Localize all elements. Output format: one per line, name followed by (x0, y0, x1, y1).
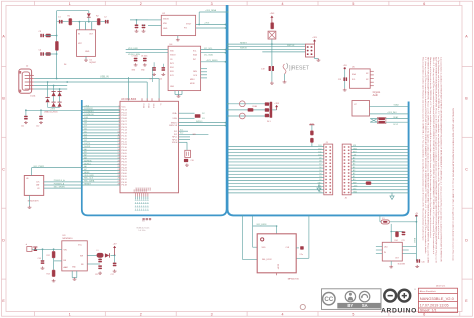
svg-text:A4/SDA: A4/SDA (84, 159, 92, 162)
connector SWD J4 (306, 44, 315, 57)
svg-text:7: 7 (118, 123, 119, 125)
svg-text:+3V3: +3V3 (343, 65, 347, 67)
svg-text:U6: U6 (26, 178, 28, 180)
svg-text:1: 1 (69, 2, 71, 6)
svg-text:P1.14: P1.14 (122, 130, 128, 132)
module right pin D- (179, 117, 195, 119)
svg-text:1: 1 (69, 313, 71, 317)
svg-text:F1: F1 (382, 218, 384, 220)
svg-text:12: 12 (118, 137, 120, 139)
svg-text:1uF 100n: 1uF 100n (138, 230, 145, 232)
svg-text:16: 16 (118, 149, 120, 151)
svg-text:D13: D13 (353, 188, 356, 190)
svg-text:17: 17 (118, 152, 120, 154)
wires U2 right to bus (196, 24, 226, 26)
svg-text:P1.13: P1.13 (122, 133, 128, 135)
svg-text:P1.12: P1.12 (122, 138, 128, 140)
svg-text:C14: C14 (38, 258, 41, 260)
svg-text:D10: D10 (318, 154, 321, 156)
svg-text:C20: C20 (422, 262, 425, 264)
svg-text:D0/RX: D0/RX (84, 146, 91, 148)
diode D4 (87, 13, 91, 17)
U10 right stubs (402, 245, 416, 247)
svg-text:P1.10: P1.10 (122, 147, 128, 149)
svg-text:P1.03: P1.03 (122, 144, 128, 146)
svg-text:D4: D4 (319, 173, 321, 175)
svg-text:VDD: VDD (262, 247, 267, 249)
wires U4 right short (201, 68, 207, 70)
svg-text:A6: A6 (353, 160, 355, 163)
svg-text:2: 2 (118, 108, 119, 110)
svg-text:U3 NINA-B306: U3 NINA-B306 (121, 98, 137, 101)
svg-text:D11: D11 (318, 151, 321, 153)
svg-text:A0: A0 (353, 178, 355, 181)
svg-text:10: 10 (118, 131, 120, 133)
svg-text:DOUT: DOUT (277, 264, 279, 270)
svg-text:SCL2: SCL2 (393, 124, 398, 126)
svg-text:PDMCLK_A: PDMCLK_A (54, 179, 65, 182)
left column caps/res row1 (40, 34, 44, 38)
capacitor C20 (416, 259, 420, 263)
ground U9 (73, 278, 77, 281)
ground C20 (415, 265, 419, 268)
svg-text:+3V3_SENS: +3V3_SENS (206, 60, 218, 62)
svg-text:P0.30: P0.30 (122, 156, 128, 158)
wire cap rail (26, 109, 120, 111)
svg-text:VDDIO: VDDIO (163, 19, 170, 21)
module U3 NINA-B306 box (120, 101, 179, 193)
svg-text:MIC_DATA: MIC_DATA (84, 180, 95, 183)
svg-text:PDMDIN_A: PDMDIN_A (54, 182, 65, 185)
wire cap riser (151, 67, 153, 82)
svg-text:RESET: RESET (240, 42, 248, 44)
svg-text:ND FITNESS FOR A PARTICULAR PU: ND FITNESS FOR A PARTICULAR PURPOSE. Ple… (427, 57, 430, 263)
resistor R4 (271, 23, 274, 30)
svg-text:P1.08: P1.08 (122, 118, 128, 120)
svg-text:D: D (465, 239, 468, 243)
svg-text:+3V3_IMU: +3V3_IMU (387, 112, 397, 114)
junction cap rail 2 (40, 109, 42, 111)
wire module pin row (82, 120, 120, 122)
svg-text:C12: C12 (36, 126, 39, 128)
svg-text:21: 21 (118, 163, 120, 165)
ground C6 (142, 30, 146, 33)
Arduino infinity logo (384, 290, 396, 302)
svg-text:P0.03: P0.03 (122, 170, 128, 172)
wire SW out (87, 254, 96, 256)
svg-text:D2: D2 (319, 179, 321, 181)
svg-text:15: 15 (118, 146, 120, 148)
module right SWDIO to bus (179, 122, 226, 124)
wire module pin row (82, 123, 120, 125)
svg-text:MIC_PWR2: MIC_PWR2 (34, 166, 45, 168)
svg-text:VDD_ENV: VDD_ENV (128, 48, 138, 50)
svg-text:XL1: XL1 (180, 129, 183, 131)
svg-text:D5: D5 (319, 170, 321, 172)
svg-text:SA: SA (362, 303, 368, 308)
wire module pin row (82, 184, 120, 186)
svg-text:D11/MOSI: D11/MOSI (84, 114, 94, 116)
svg-text:P0.05: P0.05 (122, 153, 128, 155)
ground J1 (318, 184, 320, 188)
svg-text:+5V: +5V (113, 243, 117, 245)
svg-text:D7: D7 (319, 164, 321, 166)
wire +3V3_NINA top (199, 11, 228, 13)
wire D+ (34, 81, 147, 83)
capacitor C2 (105, 20, 109, 24)
svg-text:D12/MISO: D12/MISO (84, 111, 94, 113)
svg-text:SWDIO: SWDIO (171, 122, 178, 124)
svg-text:SWDIO: SWDIO (240, 48, 247, 50)
svg-text:C18: C18 (338, 79, 341, 81)
svg-text:D13/SCK: D13/SCK (84, 108, 93, 110)
svg-text:1: 1 (118, 105, 119, 107)
svg-text:+3V3: +3V3 (84, 105, 90, 107)
resistor R3 vertical mid (55, 41, 58, 50)
svg-text:P0.09: P0.09 (147, 104, 149, 108)
wire module pin row (82, 181, 120, 183)
wire module pin row (82, 132, 120, 134)
svg-text:BY: BY (347, 303, 353, 308)
IC U10 load switch (382, 242, 402, 261)
ground spring (284, 74, 286, 80)
svg-text:VDD_ENV: VDD_ENV (84, 175, 94, 177)
svg-text:A3: A3 (353, 169, 355, 172)
svg-text:6: 6 (118, 120, 119, 122)
svg-text:SDO: SDO (170, 67, 174, 69)
wire header row L (228, 186, 324, 188)
wire FB (87, 263, 100, 265)
BY person circle (345, 291, 355, 301)
ground header right (391, 192, 393, 196)
frame row ticks left/right (2, 65, 7, 67)
connector J5 (342, 144, 351, 195)
wire to +5V (111, 254, 115, 256)
wire to ESD (53, 86, 55, 103)
svg-text:2: 2 (140, 2, 142, 6)
svg-text:26: 26 (118, 178, 120, 180)
svg-text:ARDUINO: ARDUINO (381, 307, 417, 314)
capacitor C11 (24, 116, 28, 120)
wire module pin row (82, 114, 120, 116)
wires U4 right to bus (201, 49, 226, 51)
svg-text:D3: D3 (319, 176, 321, 178)
svg-text:SWCLK: SWCLK (287, 45, 295, 47)
svg-text:GND: GND (318, 182, 323, 184)
wire module pin row (82, 112, 120, 114)
svg-text:XL2: XL2 (180, 133, 183, 135)
svg-text:Hardware and is licensed under: Hardware and is licensed under the CERN … (429, 57, 432, 238)
wire to ESD 3 (47, 82, 49, 98)
svg-text:4: 4 (282, 313, 284, 317)
svg-text:Sheet: 1/1: Sheet: 1/1 (420, 309, 437, 313)
svg-text:+3V3: +3V3 (312, 37, 316, 39)
crypto legs (370, 70, 374, 72)
wire VUSB down (415, 222, 417, 261)
bus bracket left (NINA module group) (82, 5, 227, 215)
svg-text:D6: D6 (319, 167, 321, 169)
svg-text:C8 100n: C8 100n (141, 56, 147, 58)
resistor R13 (52, 270, 55, 277)
wire button to cap (271, 44, 273, 66)
svg-text:L1: L1 (97, 250, 99, 252)
wires U2 left (148, 19, 161, 21)
resistor R12 (53, 249, 55, 251)
svg-text:C15: C15 (95, 274, 98, 276)
input connector VIN (27, 247, 32, 252)
svg-text:MP34DT05: MP34DT05 (288, 279, 300, 281)
svg-text:INT1: INT1 (170, 63, 174, 65)
svg-text:D12: D12 (318, 148, 321, 150)
svg-text:3: 3 (118, 111, 119, 113)
svg-text:+3V3_NINA: +3V3_NINA (205, 9, 217, 12)
module right pin D+ with ferrite (179, 112, 195, 114)
wire module pin row (82, 143, 120, 145)
wire EN (53, 258, 55, 261)
module right xtal rows (179, 130, 189, 132)
svg-text:5: 5 (118, 117, 119, 119)
connector J2 USB (19, 69, 32, 93)
svg-text:U10: U10 (384, 247, 387, 249)
wire VUSB riser (56, 11, 58, 79)
wire module pin row (82, 178, 120, 180)
wire D- drop to module (158, 79, 160, 101)
svg-text:AAM: AAM (64, 266, 69, 269)
svg-text:P0.18: P0.18 (122, 185, 128, 187)
svg-text:P0.27: P0.27 (122, 121, 128, 123)
svg-text:USB_IN: USB_IN (100, 76, 109, 79)
wire VUSB chain (57, 21, 108, 23)
wire module pin row (82, 117, 120, 119)
svg-text:+3V3: +3V3 (204, 23, 210, 25)
IC U4 sensor box (168, 46, 201, 90)
power arrow SWD (313, 39, 316, 44)
svg-text:I2C_SDA: I2C_SDA (204, 54, 213, 57)
wire header row R (351, 164, 409, 166)
solder jumper pads SJ1 (142, 218, 144, 220)
svg-text:SEL_LRCK: SEL_LRCK (262, 259, 272, 261)
pullup resistors R5 R6 (370, 118, 408, 120)
ground R13 (52, 279, 56, 282)
svg-text:AREF: AREF (84, 171, 90, 174)
wire header row L (228, 158, 324, 160)
svg-text:GND: GND (353, 148, 358, 150)
svg-text:27: 27 (118, 181, 120, 183)
svg-text:SLG59M: SLG59M (398, 263, 406, 265)
ground C19 (271, 71, 273, 82)
SWD wires (228, 43, 306, 45)
svg-text:Auth: Auth (373, 93, 379, 97)
wire VIN (32, 248, 62, 250)
svg-text:MISO: MISO (190, 79, 195, 81)
svg-text:1.2. (ohwr.org cernohl) This d: 1.2. (ohwr.org cernohl) This documentati… (424, 57, 427, 253)
mic wires right (44, 181, 82, 183)
resistor R7 (248, 108, 254, 111)
wire GND usb (34, 88, 67, 90)
svg-text:D8: D8 (319, 161, 321, 163)
svg-text:C10: C10 (159, 79, 162, 81)
capacitor C5 (135, 25, 139, 29)
branch below fuse (390, 224, 392, 242)
power arrow +5V (113, 246, 116, 256)
svg-text:9: 9 (118, 129, 119, 131)
svg-text:2: 2 (140, 313, 142, 317)
svg-text:A1: A1 (353, 175, 355, 178)
wire header row L (228, 192, 324, 194)
svg-text:NFC1: NFC1 (172, 137, 177, 139)
svg-text:MPM3610: MPM3610 (63, 238, 74, 240)
crystal Y1 (185, 150, 191, 157)
pushbutton PB1 (268, 31, 276, 39)
svg-text:C21: C21 (402, 240, 405, 242)
svg-text:VOUT: VOUT (186, 24, 192, 26)
wire header row L (228, 161, 324, 163)
svg-text:C10: C10 (191, 160, 194, 162)
ESD diode array D5 USBLC6 (52, 92, 56, 96)
power flag VUSB (415, 215, 417, 217)
wire D- (34, 85, 67, 87)
svg-text:XL1: XL1 (174, 131, 177, 133)
svg-text:]|RESET: ]|RESET (289, 65, 310, 71)
wire header row L (228, 149, 324, 151)
ground C12 (39, 121, 43, 124)
wire module pin row (82, 152, 120, 154)
fiducial circle (300, 304, 305, 309)
LED symbol 2 (239, 113, 245, 119)
svg-text:C11: C11 (21, 126, 24, 128)
resistor R9 (310, 138, 313, 143)
resistor R1 (69, 18, 72, 25)
svg-text:23: 23 (118, 169, 120, 171)
IC U5 crypto box (350, 69, 371, 88)
svg-text:D4: D4 (64, 64, 66, 66)
svg-text:C17: C17 (111, 274, 114, 276)
mic U6 box (24, 176, 43, 196)
wire module pin row (82, 172, 120, 174)
svg-text:GND: GND (85, 51, 90, 53)
svg-text:VDDIO: VDDIO (170, 55, 176, 57)
svg-text:2.2u: 2.2u (300, 254, 304, 256)
IC U2 LDO box (161, 15, 195, 35)
power dot crypto (344, 67, 346, 69)
svg-text:NANO33BLE_V2.0: NANO33BLE_V2.0 (420, 296, 455, 301)
capacitor C1 (59, 20, 63, 24)
USB pins (25, 74, 34, 76)
mic U8 big box (257, 234, 296, 273)
wire header row R (351, 183, 409, 185)
svg-text:SCL: SCL (352, 79, 356, 81)
svg-text:R12: R12 (47, 255, 50, 257)
wire header row L (228, 155, 324, 157)
capacitor C12 (39, 116, 43, 120)
wire header row R (351, 176, 409, 178)
ground crypto (343, 88, 347, 91)
wire mic SEL from bus (242, 215, 244, 259)
svg-text:P1.02: P1.02 (122, 115, 128, 117)
svg-text:VUSB: VUSB (414, 237, 416, 243)
svg-text:GND: GND (353, 192, 358, 194)
wire module pin row (82, 138, 120, 140)
svg-text:MIC_EN98: MIC_EN98 (257, 224, 268, 226)
wire module pin row (82, 149, 120, 151)
svg-text:5: 5 (352, 313, 354, 317)
module bottom gnd mark grid (135, 199, 137, 201)
wire header row L (228, 152, 324, 154)
wire header row R (351, 170, 409, 172)
svg-text:D+: D+ (159, 104, 161, 106)
svg-text:USBLC6-2SC6: USBLC6-2SC6 (44, 112, 58, 114)
capacitor C6 (142, 25, 146, 29)
capacitor C19 (269, 66, 274, 71)
reset spring symbol (283, 64, 286, 74)
mic bottom stub (276, 273, 278, 275)
ground SWD (314, 57, 316, 59)
wire header row L (228, 179, 324, 181)
svg-text:R13: R13 (47, 274, 50, 276)
svg-text:SW: SW (80, 255, 83, 257)
svg-text:19: 19 (118, 157, 120, 159)
left column caps/res row2 (40, 52, 44, 56)
wire module pin row (82, 146, 120, 148)
wire module pin row (82, 106, 120, 108)
power arrow RGB (272, 109, 276, 111)
svg-text:A5: A5 (353, 163, 355, 166)
ground C14 (41, 267, 45, 270)
svg-text:is documentation is distribute: is documentation is distributed WITHOUT … (440, 57, 443, 262)
svg-text:3: 3 (211, 313, 213, 317)
wire module pin row (82, 126, 120, 128)
wire fuse to +5V node (389, 221, 416, 223)
ferrite FB1 (195, 114, 201, 118)
svg-text:22: 22 (118, 166, 120, 168)
frame column ticks top/bottom (33, 1, 35, 5)
module top pins (141, 98, 143, 101)
svg-text:SWDCLK: SWDCLK (169, 125, 178, 127)
wires RGB (228, 103, 270, 105)
svg-text:BQ2407: BQ2407 (90, 62, 97, 64)
svg-text:P0.10: P0.10 (142, 104, 144, 108)
CC license box (322, 289, 382, 310)
svg-text:This documentation describes O: This documentation describes Open Hardwa… (421, 57, 424, 241)
wire module pin row (82, 175, 120, 177)
svg-text:2B 1Y1J 1: 2B 1Y1J 1 (436, 286, 446, 288)
inductor L1 (97, 253, 104, 258)
fuse F1 (381, 220, 389, 224)
BY SA bar (337, 303, 380, 309)
svg-text:A5/SCL: A5/SCL (84, 162, 92, 165)
svg-text:MIC_SPWR: MIC_SPWR (54, 187, 65, 189)
wire module pin row (82, 158, 120, 160)
wire header row L (228, 170, 324, 172)
ground C17 (113, 270, 117, 273)
ground C5 (135, 30, 139, 33)
wire header row L (228, 173, 324, 175)
U10 left stubs (376, 245, 382, 247)
wire to ESD 2 (59, 89, 61, 102)
svg-text:D13: D13 (318, 145, 321, 147)
wire header row R (351, 186, 409, 188)
ground U1 (84, 59, 88, 62)
svg-text:P0.17: P0.17 (122, 179, 128, 181)
power arrow +3V3 reset (270, 16, 273, 23)
ground U10 (390, 261, 392, 265)
ground crystal (185, 164, 189, 167)
svg-text:C: C (465, 168, 468, 172)
wire module pin row (82, 164, 120, 166)
wire mic EN from bus (252, 216, 254, 226)
svg-text:USB-: USB- (173, 118, 178, 120)
svg-text:4: 4 (118, 114, 119, 116)
